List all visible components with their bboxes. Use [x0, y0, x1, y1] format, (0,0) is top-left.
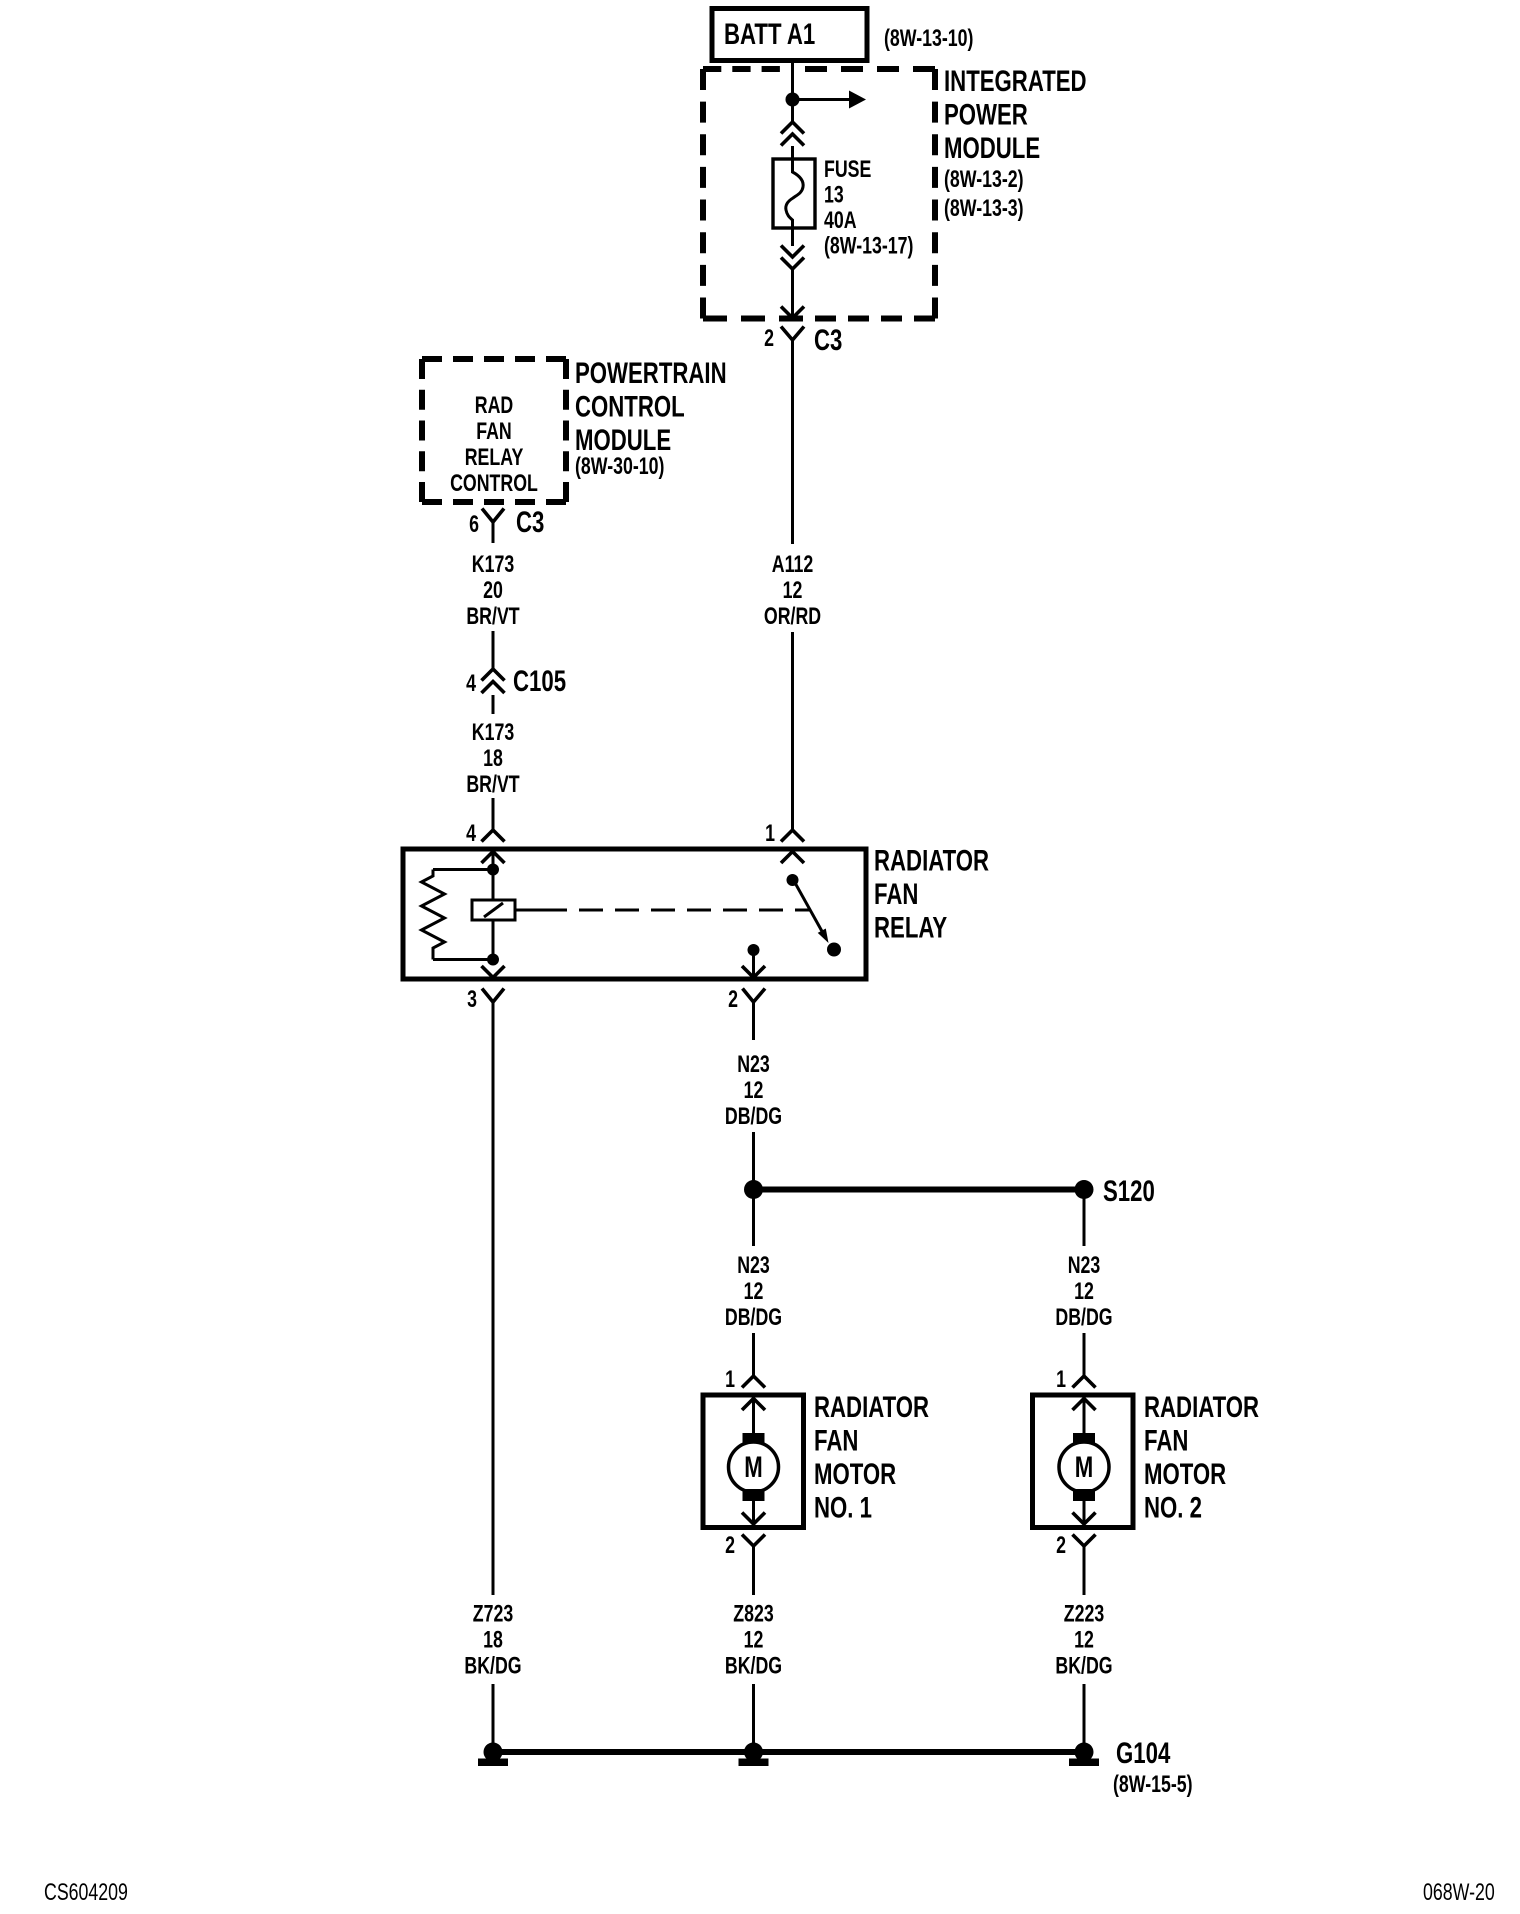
svg-text:RAD: RAD: [475, 393, 513, 419]
wire below fuse: [791, 228, 794, 246]
wire to IPM edge: [791, 269, 794, 318]
svg-text:2: 2: [728, 987, 738, 1013]
motor 2 symbol: [1059, 1433, 1109, 1501]
svg-text:Z223: Z223: [1064, 1601, 1104, 1627]
wire A112 upper segment: [791, 340, 794, 544]
pin 1 node: [787, 874, 799, 886]
svg-text:OR/RD: OR/RD: [764, 604, 821, 630]
svg-text:12: 12: [744, 1627, 764, 1653]
motor 1 symbol: [729, 1433, 779, 1501]
svg-text:(8W-13-2): (8W-13-2): [944, 167, 1024, 193]
wire label Z823 12 BK/DG: [725, 1601, 782, 1679]
svg-text:N23: N23: [737, 1052, 770, 1078]
resistor (relay coil suppression): [422, 870, 494, 960]
svg-text:FAN: FAN: [814, 1423, 858, 1457]
svg-text:13: 13: [824, 182, 844, 208]
wire Z823 to ground: [752, 1684, 755, 1752]
svg-text:12: 12: [783, 578, 803, 604]
svg-text:40A: 40A: [824, 208, 857, 234]
svg-text:INTEGRATED: INTEGRATED: [944, 64, 1087, 98]
svg-text:POWER: POWER: [944, 97, 1028, 131]
pin 2 chevron inside relay: [742, 966, 765, 978]
powertrain control module dashed outline: [422, 359, 566, 502]
connector C3 of PCM, pin 6: [469, 505, 544, 543]
svg-text:BK/DG: BK/DG: [725, 1653, 782, 1679]
svg-text:G104: G104: [1116, 1736, 1171, 1770]
svg-text:BATT A1: BATT A1: [724, 17, 815, 51]
wire N23 to motor 2: [1083, 1333, 1086, 1376]
svg-text:(8W-30-10): (8W-30-10): [575, 454, 664, 480]
wire N23 from relay pin 2: [752, 1002, 755, 1040]
pin 3 chevron inside relay: [482, 966, 505, 978]
svg-text:C105: C105: [513, 664, 566, 698]
arrow to other circuits: [793, 91, 867, 109]
svg-text:N23: N23: [737, 1253, 770, 1279]
wire label Z223 12 BK/DG: [1055, 1601, 1112, 1679]
wire chevrons to fuse: [791, 146, 794, 161]
svg-text:RADIATOR: RADIATOR: [1144, 1390, 1259, 1424]
relay coil branch wire: [492, 851, 495, 960]
in-line connector C105 pin 4: [466, 664, 566, 698]
motor 1 connector pin 1: [725, 1367, 765, 1393]
svg-text:RADIATOR: RADIATOR: [814, 1390, 929, 1424]
svg-text:CONTROL: CONTROL: [575, 389, 685, 423]
pin 2 node and stub: [748, 944, 760, 977]
motor 2 internal wires: [1083, 1398, 1086, 1524]
relay connector pin 2: [728, 987, 765, 1013]
svg-text:BK/DG: BK/DG: [464, 1653, 521, 1679]
svg-text:NO. 2: NO. 2: [1144, 1490, 1202, 1524]
motor 1 internal wires: [752, 1398, 755, 1524]
svg-text:4: 4: [466, 671, 476, 697]
radiator fan motor no.2 box: [1033, 1395, 1134, 1528]
svg-text:BR/VT: BR/VT: [466, 772, 519, 798]
wire label Z723 18 BK/DG: [464, 1601, 521, 1679]
relay connector pin 4: [466, 821, 504, 847]
wire Z723 to ground: [492, 1684, 495, 1752]
svg-text:C3: C3: [814, 323, 842, 357]
svg-text:DB/DG: DB/DG: [725, 1104, 782, 1130]
svg-text:(8W-15-5): (8W-15-5): [1113, 1772, 1193, 1798]
svg-text:2: 2: [725, 1533, 735, 1559]
wire label N23 12 DB/DG left branch: [725, 1253, 782, 1331]
junction node in IPM: [786, 93, 800, 107]
in-line connector double chevron below fuse: [781, 246, 804, 270]
normally open contact node: [827, 943, 841, 957]
motor 1 bottom pin chevron: [742, 1513, 765, 1525]
fuse label FUSE 13 40A (8W-13-17): [824, 157, 913, 260]
module name POWERTRAIN CONTROL MODULE: [575, 356, 727, 480]
svg-text:(8W-13-17): (8W-13-17): [824, 233, 913, 259]
splice S120 bus: [744, 1174, 1155, 1208]
motor 2 connector pin 2: [1056, 1533, 1095, 1595]
motor 1 pin chevron: [742, 1399, 765, 1411]
svg-text:2: 2: [1056, 1533, 1066, 1559]
svg-text:RELAY: RELAY: [874, 910, 948, 944]
svg-text:MOTOR: MOTOR: [814, 1457, 896, 1491]
wire label N23 12 DB/DG upper: [725, 1052, 782, 1130]
ground node middle: [739, 1743, 769, 1767]
ground label G104: [1113, 1736, 1193, 1798]
PCM internal label RAD FAN RELAY CONTROL: [450, 393, 538, 497]
svg-text:12: 12: [1074, 1627, 1094, 1653]
svg-text:S120: S120: [1103, 1174, 1155, 1208]
svg-text:(8W-13-3): (8W-13-3): [944, 196, 1024, 222]
svg-text:MODULE: MODULE: [944, 131, 1040, 165]
wire from BATT A1 into IPM: [791, 58, 794, 122]
svg-text:BK/DG: BK/DG: [1055, 1653, 1112, 1679]
svg-text:DB/DG: DB/DG: [725, 1305, 782, 1331]
ground bus G104: [493, 1749, 1084, 1755]
motor 1 connector pin 2: [725, 1533, 765, 1595]
svg-text:FAN: FAN: [1144, 1423, 1188, 1457]
wire N23 branch right below splice: [1083, 1190, 1086, 1247]
relay connector pin 1: [765, 821, 804, 847]
svg-text:2: 2: [764, 326, 774, 352]
wire label K173 18 BR/VT: [466, 720, 519, 798]
motor 2 connector pin 1: [1056, 1367, 1095, 1393]
svg-text:1: 1: [765, 821, 775, 847]
svg-text:M: M: [1075, 1450, 1093, 1484]
pin 1 chevron inside relay: [781, 852, 804, 864]
svg-text:N23: N23: [1068, 1253, 1101, 1279]
svg-text:MODULE: MODULE: [575, 423, 671, 457]
integrated power module dashed outline: [703, 69, 935, 319]
svg-text:Z823: Z823: [733, 1601, 773, 1627]
svg-text:MOTOR: MOTOR: [1144, 1457, 1226, 1491]
svg-text:K173: K173: [472, 720, 514, 746]
fuse 13 40A: [773, 159, 815, 228]
svg-text:4: 4: [466, 821, 476, 847]
wire K173 to C105: [492, 631, 495, 669]
radiator fan relay box: [403, 849, 866, 979]
wire K173 to relay: [492, 798, 495, 830]
svg-text:FAN: FAN: [874, 877, 918, 911]
svg-text:FUSE: FUSE: [824, 157, 871, 183]
wire label A112 12 OR/RD: [764, 552, 821, 630]
svg-text:RELAY: RELAY: [465, 445, 524, 471]
svg-text:18: 18: [483, 746, 503, 772]
svg-text:FAN: FAN: [476, 419, 512, 445]
svg-text:CS604209: CS604209: [44, 1880, 128, 1906]
svg-text:DB/DG: DB/DG: [1055, 1305, 1112, 1331]
relay coil box symbol: [472, 900, 515, 920]
wire A112 lower segment: [791, 632, 794, 830]
svg-text:12: 12: [744, 1078, 764, 1104]
module name RADIATOR FAN MOTOR NO. 2: [1144, 1390, 1259, 1525]
svg-text:POWERTRAIN: POWERTRAIN: [575, 356, 727, 390]
wire N23 branch left below splice: [752, 1190, 755, 1247]
wire Z723 long segment from relay pin 3: [492, 1002, 495, 1595]
module name INTEGRATED POWER MODULE: [944, 64, 1087, 222]
svg-text:CONTROL: CONTROL: [450, 471, 538, 497]
in-line connector double chevron above fuse: [781, 122, 804, 146]
coil top node: [487, 864, 499, 876]
pin chevron at IPM edge: [781, 307, 804, 319]
coil bottom node: [487, 954, 499, 966]
svg-text:C3: C3: [516, 505, 544, 539]
ground node left: [478, 1743, 508, 1767]
connector C3 of IPM, pin 2: [764, 323, 842, 357]
svg-text:3: 3: [467, 987, 477, 1013]
wire below C105: [492, 695, 495, 714]
svg-text:NO. 1: NO. 1: [814, 1490, 872, 1524]
svg-text:18: 18: [483, 1627, 503, 1653]
svg-text:1: 1: [1056, 1367, 1066, 1393]
svg-text:12: 12: [1074, 1279, 1094, 1305]
module name RADIATOR FAN MOTOR NO. 1: [814, 1390, 929, 1525]
radiator fan motor no.1 box: [703, 1395, 804, 1528]
svg-text:068W-20: 068W-20: [1423, 1880, 1495, 1906]
svg-text:A112: A112: [772, 552, 813, 578]
ground node right: [1069, 1743, 1099, 1767]
svg-text:RADIATOR: RADIATOR: [874, 843, 989, 877]
relay connector pin 3: [467, 987, 504, 1013]
wire label K173 20 BR/VT: [466, 552, 519, 630]
wire N23 to motor 1: [752, 1333, 755, 1376]
svg-text:12: 12: [744, 1279, 764, 1305]
motor 2 bottom pin chevron: [1073, 1513, 1096, 1525]
svg-text:1: 1: [725, 1367, 735, 1393]
coil to armature dashed link: [515, 909, 810, 912]
battery feed box BATT A1: [712, 9, 867, 61]
pin 4 chevron inside relay: [482, 852, 505, 864]
svg-text:Z723: Z723: [473, 1601, 513, 1627]
svg-text:(8W-13-10): (8W-13-10): [884, 26, 973, 52]
wire Z223 to ground: [1083, 1684, 1086, 1752]
motor 2 pin chevron: [1073, 1399, 1096, 1411]
svg-text:M: M: [744, 1450, 762, 1484]
svg-text:6: 6: [469, 512, 479, 538]
svg-text:20: 20: [483, 578, 503, 604]
module name RADIATOR FAN RELAY: [874, 843, 989, 944]
svg-text:BR/VT: BR/VT: [466, 604, 519, 630]
wire label N23 12 DB/DG right branch: [1055, 1253, 1112, 1331]
wire N23 to splice: [752, 1132, 755, 1190]
relay armature switch: [794, 881, 829, 943]
svg-text:K173: K173: [472, 552, 514, 578]
